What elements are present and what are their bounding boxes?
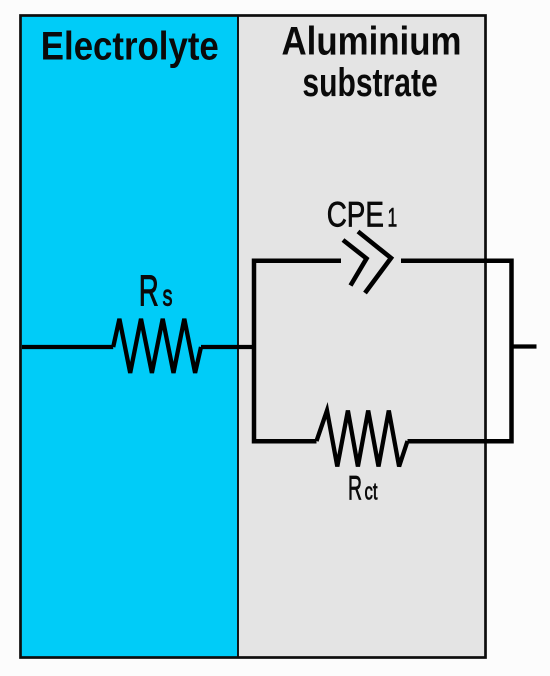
electrolyte region (cyan) <box>21 16 239 658</box>
wire: bottom branch left segment <box>254 439 317 444</box>
wire: right vertical of parallel network <box>509 259 514 444</box>
svg-text:s: s <box>163 280 173 313</box>
wire: top branch left segment <box>254 259 341 264</box>
label CPE1 <box>327 196 398 235</box>
svg-text:1: 1 <box>388 203 398 233</box>
resistor Rct (zigzag) <box>317 411 408 467</box>
wire: top branch right segment <box>401 259 512 264</box>
label Rs <box>139 267 173 316</box>
svg-text:ct: ct <box>365 479 378 506</box>
wire: input lead from left border <box>22 345 113 349</box>
wire: left vertical of parallel network <box>252 259 257 444</box>
aluminium substrate region (grey) <box>238 16 485 658</box>
svg-text:R: R <box>139 267 159 316</box>
wire: Rs to parallel junction <box>201 345 256 349</box>
svg-text:Aluminium: Aluminium <box>282 20 462 64</box>
svg-text:R: R <box>348 470 362 508</box>
svg-text:CPE: CPE <box>327 196 384 235</box>
resistor Rs (zigzag) <box>113 319 201 373</box>
wire: bottom branch right segment <box>408 439 512 444</box>
label Rct <box>348 470 378 508</box>
svg-text:substrate: substrate <box>302 61 437 105</box>
electrolyte/substrate divider line <box>237 16 239 658</box>
wire: output lead stub <box>512 344 537 348</box>
svg-text:Electrolyte: Electrolyte <box>41 25 219 69</box>
CPE1 constant phase element symbol (double chevron) <box>343 232 391 294</box>
